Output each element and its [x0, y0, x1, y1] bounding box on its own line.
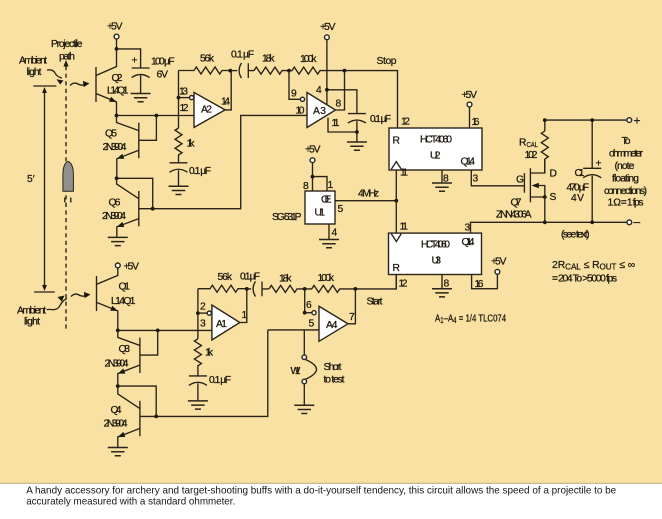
- svg-text:L14Q1: L14Q1: [107, 86, 129, 97]
- svg-text:8: 8: [336, 99, 342, 110]
- svg-text:+5 V: +5 V: [491, 257, 507, 268]
- svg-text:0.1 µF: 0.1 µF: [231, 50, 254, 61]
- svg-text:R: R: [393, 136, 400, 147]
- svg-text:12: 12: [399, 279, 408, 290]
- svg-text:11: 11: [400, 222, 409, 233]
- svg-text:light: light: [24, 317, 40, 328]
- svg-text:Q1: Q1: [119, 282, 131, 293]
- svg-text:Projectile: Projectile: [51, 39, 83, 50]
- svg-text:to test: to test: [324, 375, 345, 386]
- svg-text:7: 7: [349, 312, 355, 323]
- svg-text:L14Q1: L14Q1: [111, 296, 136, 307]
- svg-text:0.1 µF: 0.1 µF: [240, 272, 260, 283]
- svg-text:11: 11: [332, 118, 340, 129]
- svg-text:6: 6: [306, 300, 312, 311]
- svg-text:+5 V: +5 V: [320, 22, 336, 33]
- svg-text:+5 V: +5 V: [305, 145, 321, 156]
- svg-text:+5 V: +5 V: [462, 90, 478, 101]
- svg-text:W1: W1: [291, 366, 301, 377]
- svg-text:4: 4: [332, 228, 338, 239]
- svg-text:1k: 1k: [205, 348, 214, 359]
- svg-text:56k: 56k: [218, 272, 233, 283]
- svg-text:13: 13: [179, 87, 188, 98]
- svg-text:HCT4060: HCT4060: [421, 240, 450, 251]
- svg-text:2N3904: 2N3904: [103, 142, 127, 153]
- svg-text:A handy accessory for archery: A handy accessory for archery and target…: [26, 486, 616, 497]
- svg-text:100k: 100k: [300, 54, 317, 65]
- svg-text:1k: 1k: [187, 139, 196, 150]
- svg-text:Q7: Q7: [511, 198, 522, 209]
- svg-text:+5 V: +5 V: [124, 262, 140, 273]
- svg-text:Q3: Q3: [119, 344, 131, 355]
- svg-text:16: 16: [472, 117, 480, 128]
- svg-text:U1: U1: [315, 208, 326, 219]
- svg-text:2N3904: 2N3904: [102, 211, 126, 222]
- svg-text:+: +: [596, 159, 602, 170]
- svg-text:U3: U3: [432, 256, 442, 267]
- svg-text:Ambient: Ambient: [17, 306, 46, 317]
- svg-text:1: 1: [328, 180, 334, 191]
- svg-text:floating: floating: [612, 174, 639, 185]
- svg-text:SG-531P: SG-531P: [272, 212, 302, 223]
- svg-text:8: 8: [303, 181, 309, 192]
- svg-text:–: –: [634, 215, 641, 229]
- svg-text:Q4: Q4: [111, 405, 122, 416]
- svg-text:1 Ω = 1 fps: 1 Ω = 1 fps: [608, 198, 644, 209]
- svg-text:470 µF: 470 µF: [567, 183, 590, 194]
- svg-text:+: +: [634, 114, 641, 128]
- svg-text:0.1 µF: 0.1 µF: [209, 375, 231, 386]
- svg-text:8: 8: [443, 174, 449, 185]
- svg-text:18k: 18k: [279, 274, 292, 285]
- svg-text:A2: A2: [201, 105, 212, 116]
- svg-text:11: 11: [400, 168, 408, 179]
- svg-text:ZNN4306A: ZNN4306A: [496, 210, 532, 221]
- svg-text:5: 5: [309, 319, 315, 330]
- svg-text:A4: A4: [326, 320, 338, 331]
- svg-text:S: S: [550, 192, 557, 203]
- svg-text:8: 8: [444, 279, 450, 290]
- svg-text:100k: 100k: [318, 273, 335, 284]
- svg-text:1: 1: [242, 310, 248, 321]
- svg-text:12: 12: [180, 103, 189, 114]
- svg-text:Stop: Stop: [377, 56, 397, 67]
- svg-text:9: 9: [291, 89, 297, 100]
- svg-text:Ambient: Ambient: [19, 56, 47, 67]
- svg-text:100 µF: 100 µF: [151, 57, 175, 68]
- svg-text:Short: Short: [324, 362, 342, 373]
- svg-text:Q2: Q2: [112, 73, 123, 84]
- svg-text:2: 2: [200, 302, 206, 313]
- svg-text:+5 V: +5 V: [107, 22, 123, 33]
- svg-text:R: R: [393, 263, 400, 274]
- svg-text:3: 3: [473, 174, 479, 185]
- svg-text:102: 102: [525, 150, 538, 161]
- svg-text:16: 16: [475, 279, 484, 290]
- svg-text:14: 14: [221, 97, 230, 108]
- svg-text:path: path: [59, 52, 75, 63]
- svg-text:D: D: [550, 169, 557, 180]
- svg-text:4 V: 4 V: [571, 193, 584, 204]
- svg-text:12: 12: [401, 117, 410, 128]
- svg-text:4 MHz: 4 MHz: [358, 189, 379, 200]
- svg-text:3: 3: [465, 223, 471, 234]
- svg-text:(note: (note: [615, 161, 635, 172]
- svg-text:A3: A3: [313, 106, 326, 117]
- svg-text:5: 5: [338, 204, 344, 215]
- svg-text:connections): connections): [604, 186, 647, 197]
- svg-text:2N3904: 2N3904: [105, 359, 129, 370]
- svg-text:4: 4: [316, 85, 322, 96]
- svg-text:G: G: [516, 175, 524, 186]
- svg-text:(see text): (see text): [561, 230, 590, 241]
- svg-text:OE: OE: [321, 195, 332, 206]
- svg-text:+: +: [132, 56, 138, 67]
- svg-text:56k: 56k: [200, 54, 215, 65]
- svg-text:accurately measured with a sta: accurately measured with a standard ohmm…: [26, 496, 235, 507]
- svg-text:Q14: Q14: [461, 157, 476, 168]
- svg-text:Start: Start: [367, 297, 383, 308]
- svg-text:HCT4060: HCT4060: [420, 135, 452, 146]
- svg-text:Q14: Q14: [462, 237, 475, 248]
- svg-text:Q5: Q5: [105, 129, 117, 140]
- svg-text:light: light: [27, 67, 42, 78]
- svg-text:0.1 µF: 0.1 µF: [189, 166, 211, 177]
- svg-text:2RCAL ≤ ROUT ≤ ∞: 2RCAL ≤ ROUT ≤ ∞: [552, 260, 635, 272]
- svg-text:0.1 µF: 0.1 µF: [370, 114, 391, 125]
- svg-text:18k: 18k: [262, 54, 275, 65]
- svg-text:2N3904: 2N3904: [104, 419, 128, 430]
- svg-text:To: To: [622, 136, 631, 147]
- svg-text:= 204 To >5000 fps: = 204 To >5000 fps: [552, 274, 617, 285]
- svg-text:A1–A4 = 1/4 TLC074: A1–A4 = 1/4 TLC074: [435, 312, 506, 325]
- svg-text:U2: U2: [430, 151, 441, 162]
- svg-text:10: 10: [296, 106, 305, 117]
- svg-text:C1: C1: [575, 168, 585, 179]
- svg-text:5′: 5′: [27, 174, 35, 185]
- svg-text:A1: A1: [216, 319, 227, 330]
- svg-text:ohmmeter: ohmmeter: [609, 149, 644, 160]
- svg-text:3: 3: [200, 319, 206, 330]
- svg-text:Q6: Q6: [109, 198, 121, 209]
- svg-text:6 V: 6 V: [157, 70, 169, 81]
